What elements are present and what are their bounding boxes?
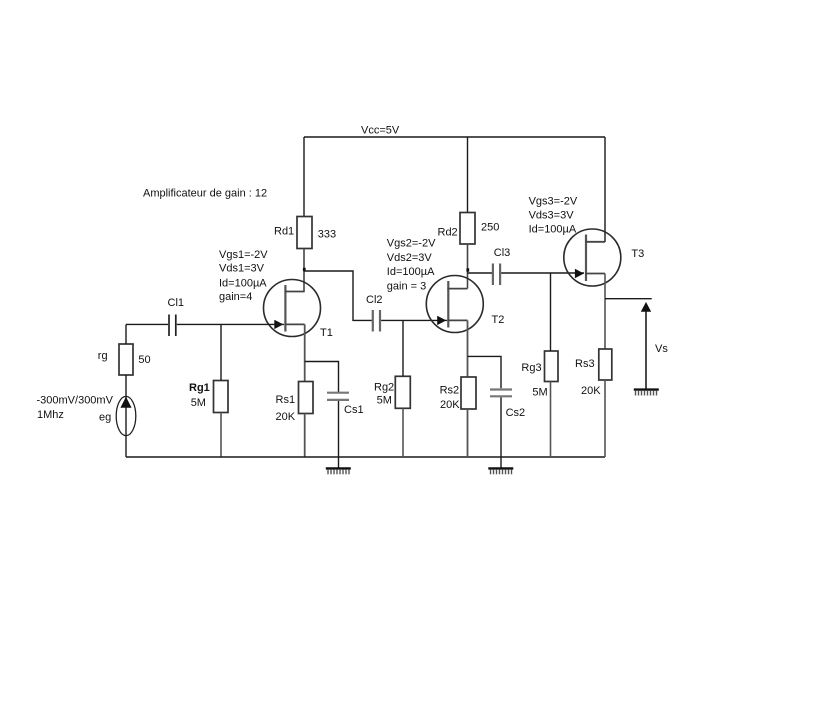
svg-text:Rd2: Rd2 — [438, 226, 458, 238]
svg-text:Id=100µA: Id=100µA — [387, 266, 435, 278]
ground bus wire — [126, 456, 605, 458]
capacitor Cl3 — [493, 264, 500, 286]
svg-text:T1: T1 — [320, 327, 333, 339]
wire T3 source to Vs — [605, 298, 652, 300]
text Vgs1 block — [219, 249, 268, 303]
wire T1 drain to Cl2 — [304, 271, 372, 320]
svg-text:Cl3: Cl3 — [494, 247, 511, 259]
resistor Rd2 — [460, 213, 475, 245]
svg-text:rg: rg — [98, 350, 108, 362]
wire ground stub 1 — [338, 457, 340, 468]
svg-text:250: 250 — [481, 222, 499, 234]
svg-text:-300mV/300mV: -300mV/300mV — [37, 394, 114, 406]
text Vgs2 block — [387, 237, 436, 292]
wire Vcc to Rd1 — [303, 137, 305, 217]
svg-text:Amplificateur de gain : 12: Amplificateur de gain : 12 — [143, 187, 267, 199]
probe Vs arrow — [641, 302, 651, 390]
wire rg to eg — [125, 375, 127, 457]
resistor Rg1 — [214, 381, 229, 413]
resistor rg — [119, 344, 133, 375]
wire Rs3 to bus — [604, 380, 606, 457]
resistor Rs1 — [299, 382, 314, 414]
svg-text:333: 333 — [318, 228, 336, 240]
resistor Rs2 — [461, 377, 476, 409]
wire Vcc to Rd2 — [467, 137, 469, 213]
wire Cl1 to T1 gate — [177, 323, 284, 325]
svg-text:5M: 5M — [377, 395, 392, 407]
svg-text:Vgs3=-2V: Vgs3=-2V — [529, 195, 578, 207]
svg-text:Vds1=3V: Vds1=3V — [219, 262, 265, 274]
wire Cs2 to bus — [500, 397, 502, 457]
svg-text:Rs2: Rs2 — [440, 385, 460, 397]
svg-text:Id=100µA: Id=100µA — [219, 278, 267, 290]
junction T2 drain node — [466, 268, 469, 271]
wire T1 source down — [304, 324, 306, 381]
transistor T2 — [426, 276, 483, 333]
svg-text:T3: T3 — [631, 248, 644, 260]
svg-text:Vgs2=-2V: Vgs2=-2V — [387, 237, 436, 249]
wire T2 drain to Cl3 — [468, 272, 493, 274]
svg-text:5M: 5M — [532, 387, 547, 399]
text Vgs3 block — [529, 195, 578, 235]
capacitor Cl2 — [373, 310, 380, 332]
svg-text:5M: 5M — [191, 397, 206, 409]
wire Rs2 to bus — [467, 409, 469, 457]
svg-text:Vs: Vs — [655, 343, 668, 355]
resistor Rg3 — [545, 351, 559, 382]
svg-text:Cl2: Cl2 — [366, 294, 383, 306]
wire Vcc rail — [304, 136, 605, 138]
wire Cl2 to T2 gate — [381, 319, 447, 321]
svg-text:20K: 20K — [440, 399, 460, 411]
wire T1 source to Cs1 — [305, 362, 339, 393]
wire Rg2 top — [402, 320, 404, 376]
svg-text:Rs1: Rs1 — [276, 394, 296, 406]
capacitor Cs1 — [327, 393, 349, 400]
wire Vcc to T3 drain — [604, 137, 606, 242]
svg-text:gain = 3: gain = 3 — [387, 281, 426, 293]
svg-text:Id=100µA: Id=100µA — [529, 224, 577, 236]
capacitor Cs2 — [490, 390, 512, 397]
svg-text:Rs3: Rs3 — [575, 358, 595, 370]
ground under Cs1 — [326, 468, 351, 474]
wire Cl3 to T3 gate — [501, 272, 584, 274]
wire Rg2 bottom — [402, 408, 404, 457]
wire Cs1 to bus — [338, 401, 340, 457]
wire ground stub 2 — [500, 457, 502, 468]
svg-text:Vds2=3V: Vds2=3V — [387, 252, 433, 264]
source eg — [116, 396, 136, 435]
ground under Vs — [634, 390, 659, 396]
svg-text:Vgs1=-2V: Vgs1=-2V — [219, 249, 268, 261]
svg-text:gain=4: gain=4 — [219, 291, 252, 303]
wire T2 source down — [467, 320, 469, 377]
svg-text:50: 50 — [138, 354, 150, 366]
svg-text:20K: 20K — [276, 411, 296, 423]
svg-text:eg: eg — [99, 411, 111, 423]
svg-text:Cs2: Cs2 — [506, 407, 526, 419]
wire input top — [125, 324, 127, 344]
svg-text:T2: T2 — [492, 314, 505, 326]
svg-text:1Mhz: 1Mhz — [37, 409, 64, 421]
svg-text:Rd1: Rd1 — [274, 226, 294, 238]
wire Rd2 to T2 drain — [467, 244, 469, 289]
svg-text:20K: 20K — [581, 385, 601, 397]
svg-text:Vds3=3V: Vds3=3V — [529, 210, 575, 222]
wire Rg1 bottom — [220, 413, 222, 458]
wire Rg3 top — [550, 273, 552, 351]
svg-text:Rg2: Rg2 — [374, 382, 394, 394]
wire Rd1 to T1 drain — [303, 249, 305, 292]
svg-text:Cl1: Cl1 — [168, 297, 185, 309]
wire Rs1 to bus — [304, 414, 306, 458]
resistor Rg2 — [395, 376, 410, 408]
wire input to Cl1 — [126, 323, 168, 325]
svg-text:Rg3: Rg3 — [521, 362, 541, 374]
ground under Cs2 — [488, 468, 513, 474]
wire T2 source to Cs2 — [468, 356, 502, 388]
transistor T1 — [264, 280, 321, 337]
resistor Rs3 — [599, 349, 612, 380]
wire Rg1 top — [220, 324, 222, 380]
svg-text:Cs1: Cs1 — [344, 404, 364, 416]
wire Rg3 bottom — [550, 382, 552, 458]
svg-text:Rg1: Rg1 — [189, 382, 210, 394]
junction T1 drain node — [303, 268, 306, 271]
wire T3 source down — [604, 274, 606, 350]
resistor Rd1 — [297, 217, 312, 249]
transistor T3 — [564, 229, 621, 286]
svg-text:Vcc=5V: Vcc=5V — [361, 124, 400, 136]
capacitor Cl1 — [169, 315, 176, 337]
